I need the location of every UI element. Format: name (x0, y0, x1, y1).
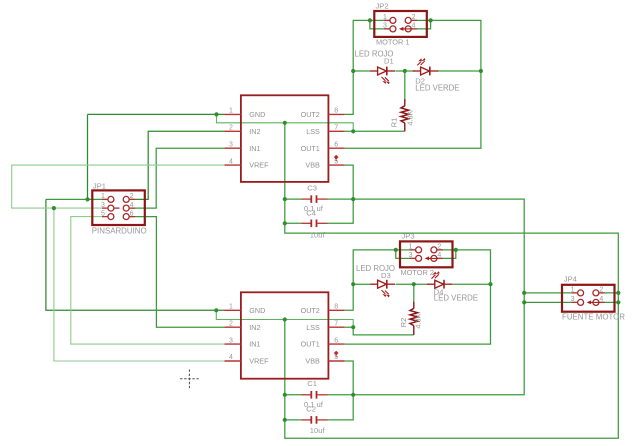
wire GND net big loop: C3/C4 left, to JP4 right, bottom return (285, 123, 619, 439)
wire JP4 pin3 wire (524, 301, 577, 303)
capacitor C3 (302, 195, 328, 203)
svg-text:C2: C2 (306, 404, 316, 413)
wire JP4 pin4 wire (599, 301, 618, 303)
LED D1 (LED ROJO) (370, 67, 395, 85)
svg-text:D3: D3 (381, 271, 391, 280)
svg-text:IN1: IN1 (249, 144, 260, 153)
svg-text:LED VERDE: LED VERDE (415, 83, 459, 92)
svg-text:VREF: VREF (249, 357, 269, 366)
wire JP3 right pins bridge (437, 250, 456, 259)
svg-text:IN1: IN1 (249, 340, 260, 349)
wire VREF net branch to IC2 VREF (54, 208, 225, 361)
svg-text:GND: GND (249, 110, 265, 119)
junction C2 left (283, 418, 287, 422)
svg-text:JP2: JP2 (376, 1, 389, 10)
junction JP4 pin4 tap (616, 300, 620, 304)
junction JP3 left (394, 248, 398, 252)
junction D1/R1/D2 node (403, 69, 407, 73)
wire GND net: JP1 to IC2 GND (46, 199, 225, 310)
svg-text:1: 1 (383, 14, 387, 21)
svg-text:JP1: JP1 (93, 182, 106, 191)
svg-text:3: 3 (383, 23, 387, 30)
svg-text:LSS: LSS (306, 323, 320, 332)
wire net JP1 pin6 to IC2 IN2 (129, 217, 224, 328)
svg-text:1: 1 (229, 304, 233, 311)
svg-text:OUT2: OUT2 (301, 110, 320, 119)
origin cross marker (180, 370, 199, 389)
svg-text:LED VERDE: LED VERDE (434, 294, 478, 303)
svg-text:R2: R2 (399, 318, 408, 327)
svg-text:7: 7 (334, 320, 338, 327)
svg-text:D1: D1 (384, 57, 394, 66)
svg-text:1: 1 (571, 287, 575, 294)
capacitor C4 (302, 220, 328, 228)
wire VBB supply run: C3 right to JP4 left to C1 right (353, 199, 524, 395)
svg-text:VREF: VREF (249, 161, 269, 170)
junction LSS1 through-line (283, 121, 287, 125)
svg-text:1: 1 (101, 193, 105, 200)
wire OUT2-2 branch to D3 anode (353, 283, 370, 285)
svg-text:GND: GND (249, 306, 265, 315)
junction C1 right (351, 393, 355, 397)
wire VBB2 net: IC2 pin5 down to C1/C2 (328, 361, 354, 420)
svg-text:3: 3 (409, 252, 413, 259)
wire GND net vertical to JP1 pin1 (87, 114, 89, 199)
pin 5 marker (334, 351, 339, 356)
capacitor C2 (302, 416, 328, 424)
junction D3 anode branch (351, 282, 355, 286)
svg-text:1: 1 (409, 244, 413, 251)
svg-text:FUENTE MOTOR: FUENTE MOTOR (562, 313, 625, 322)
pin 5 marker (334, 155, 339, 160)
svg-text:C1: C1 (307, 379, 317, 388)
pin 3 marker dash (114, 207, 119, 209)
wire net JP1 pin5 to IC2 IN1 (71, 217, 225, 345)
svg-text:2: 2 (130, 193, 134, 200)
wire JP2 right pins bridge (411, 20, 430, 29)
svg-text:PINSARDUINO: PINSARDUINO (92, 226, 147, 235)
resistor R1 (401, 99, 409, 131)
wire R1 top lead wire (404, 71, 406, 99)
wire JP3 left pins bridge (396, 250, 416, 259)
wire wire D4 cathode to OUT1-2 riser (452, 283, 490, 285)
wire C3 right wire (328, 198, 354, 200)
wire IN1-1 net: IC1 pin3 to JP1 pin4 (129, 148, 224, 208)
wire LSS1 net to R1 (345, 130, 405, 132)
svg-text:2: 2 (229, 320, 233, 327)
svg-text:7: 7 (334, 125, 338, 132)
wire OUT1-2 net: IC2 pin6 to JP3 right (345, 250, 491, 344)
wire R2 top lead wire (413, 284, 415, 301)
connector JP3 (400, 241, 453, 267)
svg-text:C4: C4 (306, 209, 316, 218)
svg-text:VBB: VBB (305, 357, 320, 366)
pin 4 direction arrow (428, 257, 438, 259)
wire GND net through IC1 to LSS (217, 114, 354, 131)
junction GND at IC2 pin1 (214, 308, 218, 312)
svg-text:2: 2 (599, 287, 603, 294)
svg-text:2: 2 (229, 125, 233, 132)
svg-text:OUT1: OUT1 (301, 340, 320, 349)
svg-text:8: 8 (334, 304, 338, 311)
wire C4 left wire (285, 222, 302, 224)
svg-text:4.3K: 4.3K (406, 110, 415, 125)
junction JP2 right (429, 18, 433, 22)
svg-text:10uf: 10uf (310, 426, 326, 435)
svg-text:JP3: JP3 (402, 232, 415, 241)
svg-text:8: 8 (334, 108, 338, 115)
junction C4 left (283, 221, 287, 225)
pin 4 direction arrow (590, 301, 600, 303)
svg-text:VBB: VBB (305, 161, 320, 170)
svg-text:4.3K: 4.3K (414, 313, 423, 328)
junction D4 cathode node (488, 282, 492, 286)
wire C2 left wire (285, 419, 302, 421)
connector JP4 (562, 285, 615, 312)
wire LSS2 net to R2 (345, 327, 414, 335)
LED D3 (LED ROJO) (370, 280, 395, 298)
junction VREF branch (52, 206, 56, 210)
wire GND net: JP1 pin1 entry (46, 198, 107, 200)
wire VBB1 net: IC1 pin5 down to C3/C4 (328, 165, 354, 223)
junction GND at IC1 pin1 (214, 112, 218, 116)
op-amp-style motor driver IC2 (225, 292, 345, 378)
svg-text:IN2: IN2 (249, 323, 260, 332)
wire C3 left wire (285, 198, 302, 200)
svg-text:6: 6 (334, 141, 338, 148)
svg-text:MOTOR 2: MOTOR 2 (401, 268, 435, 277)
junction D2 cathode node (479, 69, 483, 73)
svg-text:4: 4 (437, 252, 441, 259)
junction C3 left (283, 197, 287, 201)
svg-text:10uf: 10uf (310, 231, 326, 240)
svg-text:OUT2: OUT2 (301, 306, 320, 315)
svg-text:6: 6 (334, 337, 338, 344)
wire GND net: JP1 pin1 to IC1 GND (88, 113, 225, 115)
junction LSS2 through-line (283, 317, 287, 321)
svg-text:MOTOR 1: MOTOR 1 (376, 38, 410, 47)
svg-text:OUT1: OUT1 (301, 144, 320, 153)
wire OUT2-1 net: IC1 pin8 to JP2 left (345, 20, 390, 114)
wire JP4 pin2 wire (599, 292, 618, 294)
wire C1 right wire (328, 394, 354, 396)
connector JP2 (374, 11, 427, 37)
junction D3/R2/D4 node (412, 282, 416, 286)
svg-text:1: 1 (229, 108, 233, 115)
junction JP2 left (368, 18, 372, 22)
junction JP4 pin3 tap (522, 300, 526, 304)
junction JP4 pin1 tap (522, 291, 526, 295)
svg-text:4: 4 (599, 296, 603, 303)
svg-text:4: 4 (130, 202, 134, 209)
wire C1 left wire (285, 394, 302, 396)
svg-text:IN2: IN2 (249, 127, 260, 136)
wire GND net through IC2 to LSS (216, 310, 353, 327)
svg-text:3: 3 (229, 337, 233, 344)
pin 4 direction arrow (402, 28, 412, 30)
svg-text:R1: R1 (390, 118, 399, 127)
svg-text:3: 3 (571, 296, 575, 303)
junction GND at JP1 pin1 (85, 197, 89, 201)
svg-text:LSS: LSS (306, 127, 320, 136)
svg-text:3: 3 (101, 202, 105, 209)
LED D2 (LED VERDE) (413, 58, 438, 75)
wire wire D2 cathode to OUT1-1 riser (437, 70, 481, 72)
svg-text:3: 3 (229, 141, 233, 148)
junction JP4 pin2 tap (616, 291, 620, 295)
svg-text:2: 2 (437, 244, 441, 251)
wire JP2 left pins bridge (370, 20, 390, 29)
svg-text:2: 2 (412, 14, 416, 21)
svg-text:4: 4 (229, 354, 233, 361)
wire IN2-1 net: IC1 pin2 to JP1 pin2 (129, 131, 224, 199)
junction C3 right (351, 197, 355, 201)
svg-text:C3: C3 (307, 184, 317, 193)
junction LSS2 at pin7 (351, 325, 355, 329)
junction LSS1 at pin7 (351, 129, 355, 133)
svg-text:4: 4 (412, 23, 416, 30)
wire OUT2-2 net: IC2 pin8 to JP3 left (345, 250, 416, 310)
junction JP3 right (454, 248, 458, 252)
connector JP1 (92, 190, 145, 225)
wire node D3 cathode / R2 / D4 anode (396, 283, 429, 285)
capacitor C1 (302, 391, 328, 399)
resistor R2 (410, 302, 418, 335)
wire OUT1-1 net: IC1 pin6 to JP2 right (345, 20, 481, 148)
svg-text:6: 6 (130, 210, 134, 217)
svg-text:5: 5 (101, 210, 105, 217)
junction D1 anode branch (351, 69, 355, 73)
svg-text:4: 4 (229, 158, 233, 165)
wire VREF1 net: IC1 pin4 to JP1 pin3 (12, 165, 225, 208)
svg-text:JP4: JP4 (564, 274, 577, 283)
junction C1 left (283, 393, 287, 397)
wire OUT2-1 net: branch to D1 anode (353, 70, 370, 72)
wire JP4 pin1 wire (524, 292, 577, 294)
LED D4 (LED VERDE) (427, 271, 452, 288)
wire node D1 cathode / R1 / D2 anode (396, 70, 415, 72)
op-amp-style motor driver IC1 (225, 95, 345, 182)
